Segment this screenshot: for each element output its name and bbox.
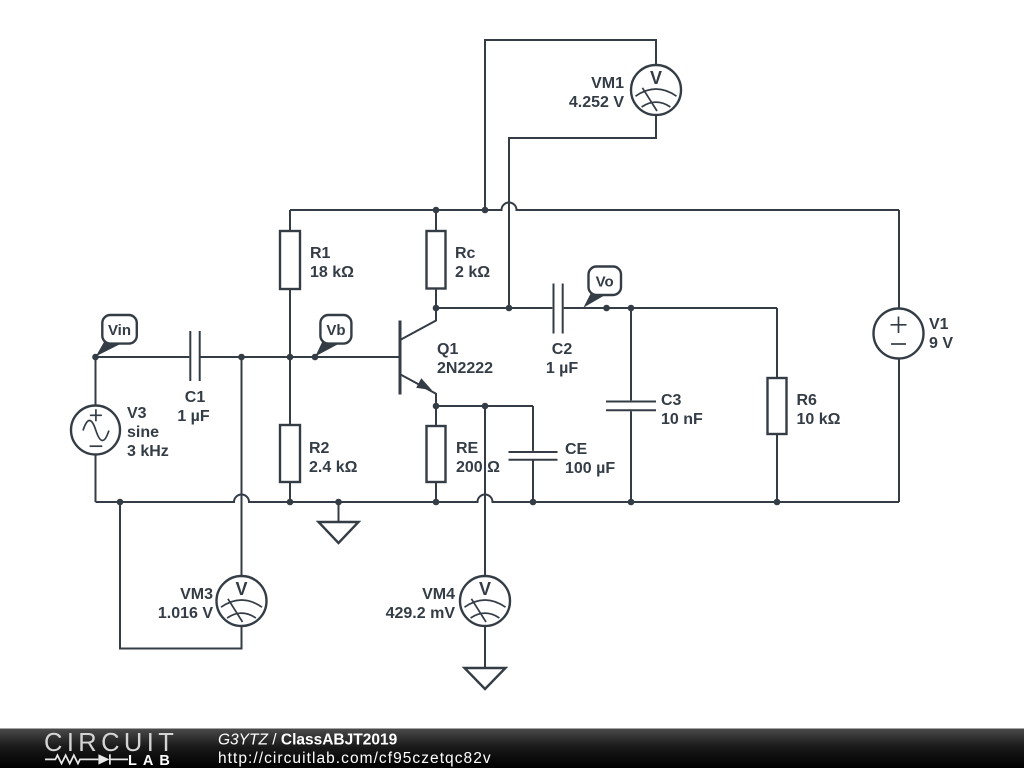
resistor R6 <box>768 308 787 502</box>
svg-text:http://circuitlab.com/cf95czet: http://circuitlab.com/cf95czetqc82v <box>218 750 492 767</box>
net flag Vb <box>315 315 351 356</box>
junction node Vin <box>92 354 99 361</box>
ground symbol under divider <box>319 502 359 543</box>
junction R6 bottom at rail <box>774 499 781 506</box>
ground symbol under VM4 <box>465 668 506 689</box>
svg-text:Vin: Vin <box>108 322 131 339</box>
svg-text:C3: C3 <box>661 392 682 409</box>
VM3 label "VM3 1.016 V" <box>158 586 213 622</box>
svg-text:VM4: VM4 <box>422 586 455 603</box>
resistor R2 <box>280 357 300 502</box>
junction ground stem at rail <box>335 499 342 506</box>
svg-text:3 kHz: 3 kHz <box>127 443 169 460</box>
junction node Vb <box>312 354 319 361</box>
V3 label "V3 sine 3 kHz" <box>127 405 169 460</box>
R6 label "R6 10 kOhm" <box>797 392 841 428</box>
svg-text:Vb: Vb <box>326 322 345 339</box>
V1 label "V1 9 V" <box>929 316 953 352</box>
svg-text:100 µF: 100 µF <box>565 460 615 477</box>
resistor Rc <box>427 210 446 308</box>
svg-text:Rc: Rc <box>455 245 476 262</box>
voltage source V3 sine <box>71 357 120 502</box>
voltmeter VM4 <box>460 576 510 626</box>
svg-text:CE: CE <box>565 441 588 458</box>
wire bottom ground rail with hops at x=241.5 and x=485 <box>96 495 900 503</box>
capacitor C1 <box>190 331 399 381</box>
RE label "RE 200 Ohm" <box>456 440 500 476</box>
junction C3 top <box>628 305 635 312</box>
R1 label "R1 18 kOhm" <box>310 245 354 281</box>
svg-text:VM1: VM1 <box>591 75 624 92</box>
svg-text:429.2 mV: 429.2 mV <box>386 605 456 622</box>
svg-text:4.252 V: 4.252 V <box>569 94 624 111</box>
svg-text:sine: sine <box>127 424 159 441</box>
wire collector node to C2 <box>436 307 552 309</box>
wire VM3 return loop to ground rail <box>120 502 242 649</box>
svg-text:G3YTZ / ClassABJT2019: G3YTZ / ClassABJT2019 <box>218 732 398 749</box>
svg-text:V: V <box>235 579 247 599</box>
svg-text:18 kΩ: 18 kΩ <box>310 264 354 281</box>
footer bar <box>0 729 1024 768</box>
svg-text:V3: V3 <box>127 405 147 422</box>
svg-text:VM3: VM3 <box>180 586 213 603</box>
wire VM1 top loop <box>485 40 656 210</box>
wire VM1 bottom loop to Vo node <box>509 115 656 308</box>
wire node Vin horizontal input line <box>96 356 190 358</box>
svg-text:10 nF: 10 nF <box>661 411 703 428</box>
C1 label "C1 1 uF" <box>177 389 210 425</box>
svg-text:R6: R6 <box>797 392 818 409</box>
wire emitter node to CE <box>436 405 533 407</box>
capacitor CE <box>509 406 558 502</box>
svg-text:10 kΩ: 10 kΩ <box>797 411 841 428</box>
VM1 label "VM1 4.252 V" <box>569 75 624 111</box>
resistor RE <box>427 406 446 502</box>
svg-text:200 Ω: 200 Ω <box>456 459 500 476</box>
junction VM4 branch at emitter line <box>482 403 489 410</box>
svg-text:V: V <box>650 68 662 88</box>
CE label "CE 100 uF" <box>565 441 615 477</box>
Q1 label "Q1 2N2222" <box>437 341 493 377</box>
wire VM4 to ground <box>484 626 486 668</box>
junction C3 bottom at rail <box>628 499 635 506</box>
svg-text:Vo: Vo <box>596 274 614 291</box>
junction collector node <box>433 305 440 312</box>
svg-text:LAB: LAB <box>128 753 176 768</box>
voltmeter VM1 <box>631 65 681 115</box>
svg-text:R1: R1 <box>310 245 331 262</box>
CircuitLab logo resistor-diode squiggle <box>45 754 128 764</box>
svg-text:C2: C2 <box>552 341 573 358</box>
VM4 label "VM4 429.2 mV" <box>386 586 456 622</box>
net flag Vin <box>96 315 137 356</box>
wire VM4 branch from emitter node <box>484 406 486 576</box>
svg-text:1 µF: 1 µF <box>546 360 579 377</box>
R2 label "R2 2.4 kOhm" <box>309 440 358 476</box>
svg-text:1.016 V: 1.016 V <box>158 605 213 622</box>
wire top supply rail with hop at x=509 <box>290 203 899 210</box>
svg-text:1 µF: 1 µF <box>177 408 210 425</box>
svg-text:Q1: Q1 <box>437 341 458 358</box>
svg-text:RE: RE <box>456 440 479 457</box>
voltage source V1 9V <box>874 210 924 502</box>
net flag Vo <box>583 267 621 308</box>
junction Rc top at rail <box>433 207 440 214</box>
junction VM1 lead at Vo line <box>506 305 513 312</box>
voltmeter VM3 <box>217 576 267 626</box>
junction R1-R2 divider at base line <box>287 354 294 361</box>
svg-text:R2: R2 <box>309 440 330 457</box>
junction VM3 return at rail <box>117 499 124 506</box>
junction emitter node <box>433 403 440 410</box>
junction CE bottom at rail <box>530 499 537 506</box>
C3 label "C3 10 nF" <box>661 392 703 428</box>
Rc label "Rc 2 kOhm" <box>455 245 490 281</box>
junction node Vo <box>603 305 610 312</box>
wire VM3 branch from node Vb line <box>241 357 243 576</box>
svg-text:V: V <box>479 579 491 599</box>
resistor R1 <box>280 210 300 357</box>
svg-text:2N2222: 2N2222 <box>437 360 493 377</box>
junction R2 bottom at rail <box>287 499 294 506</box>
transistor Q1 2N2222 <box>400 308 436 406</box>
capacitor C2 <box>554 284 778 334</box>
svg-text:C1: C1 <box>185 389 206 406</box>
svg-text:2.4 kΩ: 2.4 kΩ <box>309 459 358 476</box>
svg-text:V1: V1 <box>929 316 949 333</box>
junction RE bottom at rail <box>433 499 440 506</box>
svg-text:9 V: 9 V <box>929 335 953 352</box>
junction VM1 top at rail <box>482 207 489 214</box>
svg-text:2 kΩ: 2 kΩ <box>455 264 490 281</box>
capacitor C3 <box>606 308 656 502</box>
junction C1 to VM3 branch <box>238 354 245 361</box>
C2 label "C2 1 uF" <box>546 341 579 377</box>
